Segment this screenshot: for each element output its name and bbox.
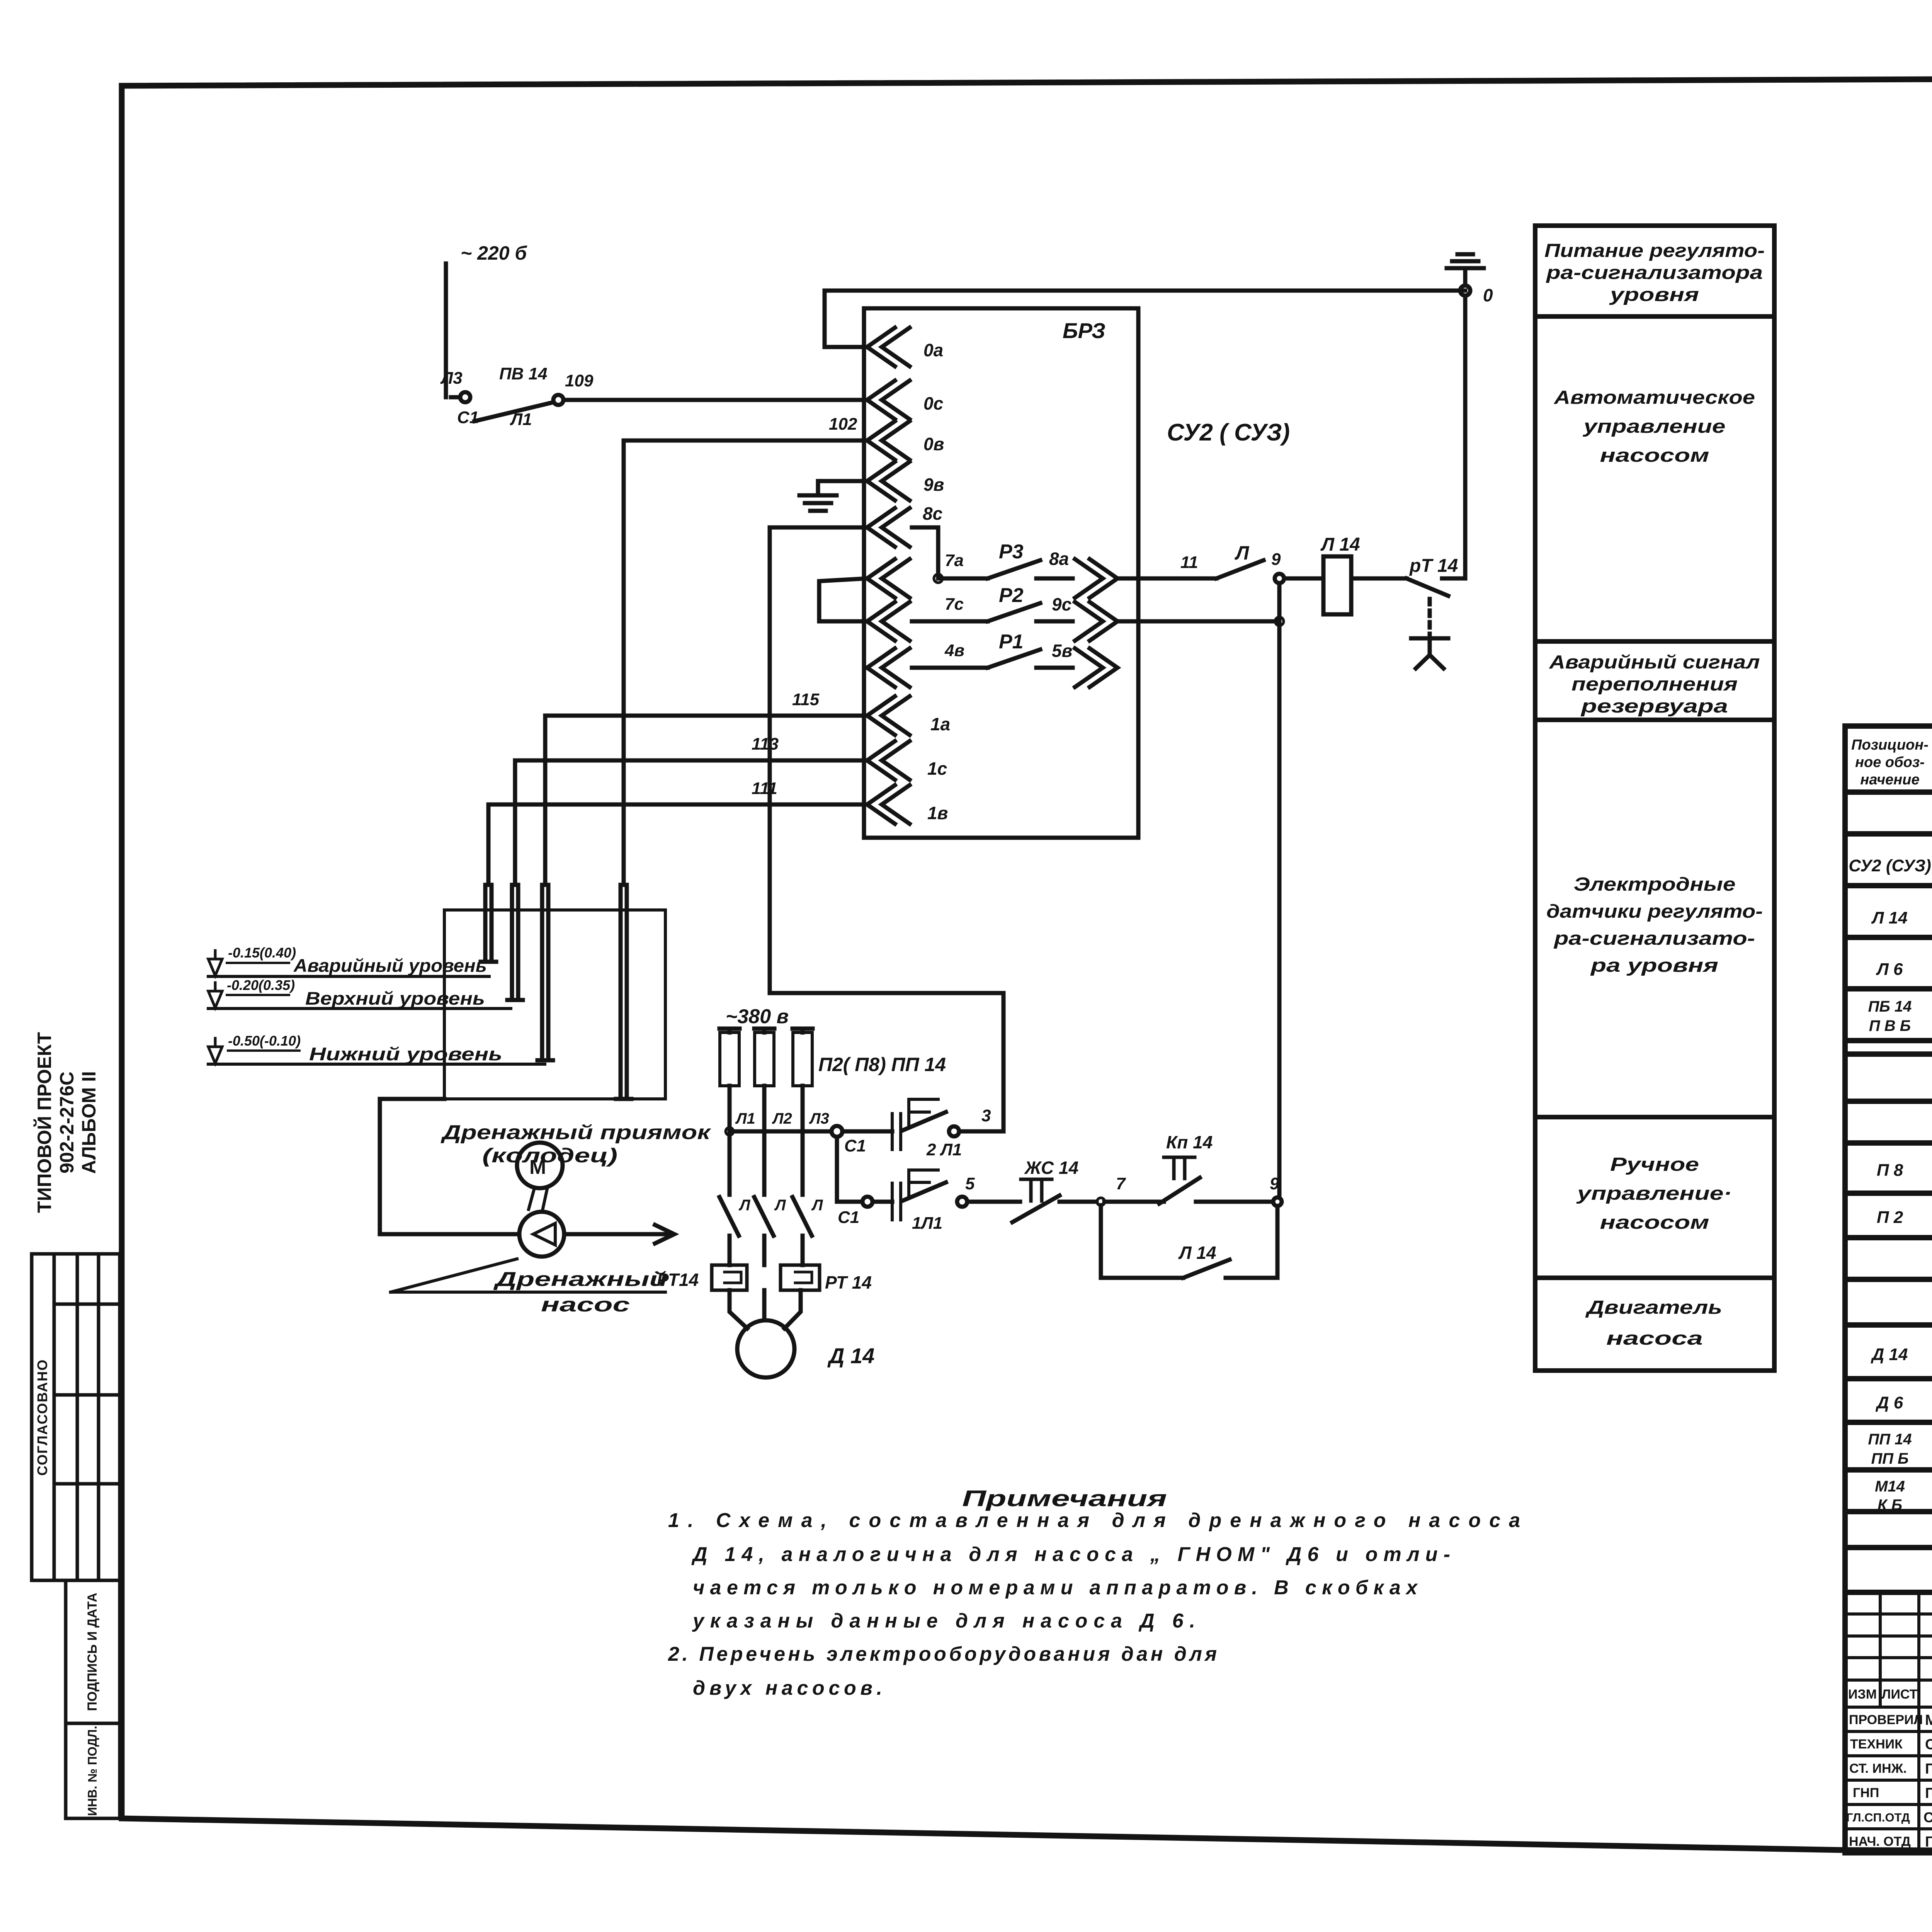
- svg-text:ЖС 14: ЖС 14: [1024, 1158, 1078, 1178]
- svg-text:Л 14: Л 14: [1871, 908, 1907, 927]
- svg-text:рТ 14: рТ 14: [1409, 556, 1458, 576]
- svg-text:МОСЕЕНКО: МОСЕЕНКО: [1925, 1712, 1932, 1728]
- svg-text:Д 14: Д 14: [827, 1344, 874, 1368]
- svg-text:7а: 7а: [945, 551, 964, 570]
- svg-text:СОГЛАСОВАНО: СОГЛАСОВАНО: [34, 1359, 50, 1476]
- svg-text:ИЗМ: ИЗМ: [1848, 1687, 1877, 1702]
- svg-text:Л1: Л1: [510, 410, 532, 429]
- svg-text:СТ. ИНЖ.: СТ. ИНЖ.: [1849, 1761, 1907, 1776]
- svg-text:ПП 14: ПП 14: [1868, 1431, 1912, 1448]
- svg-text:Л: Л: [774, 1197, 786, 1214]
- svg-text:0а: 0а: [923, 340, 943, 360]
- svg-text:Р1: Р1: [999, 631, 1024, 653]
- svg-text:Л2: Л2: [772, 1110, 792, 1127]
- svg-text:СЕНКОВА: СЕНКОВА: [1925, 1736, 1932, 1753]
- svg-text:~380 в: ~380 в: [726, 1005, 789, 1028]
- svg-text:ЛИСТ: ЛИСТ: [1882, 1687, 1918, 1702]
- svg-text:ГОЛЬЦМАН: ГОЛЬЦМАН: [1925, 1834, 1932, 1850]
- svg-text:Л 6: Л 6: [1876, 960, 1903, 979]
- svg-text:начение: начение: [1860, 772, 1919, 788]
- svg-text:ПП Б: ПП Б: [1871, 1450, 1909, 1467]
- svg-text:С1: С1: [838, 1208, 859, 1227]
- svg-text:4в: 4в: [944, 641, 964, 660]
- svg-text:управление: управление: [1582, 416, 1726, 437]
- svg-text:М: М: [529, 1156, 546, 1179]
- svg-text:115: 115: [792, 690, 820, 709]
- svg-text:датчики регулято-: датчики регулято-: [1546, 901, 1763, 922]
- svg-text:ПРОВЕРИЛ: ПРОВЕРИЛ: [1849, 1713, 1923, 1727]
- svg-text:ПБ 14: ПБ 14: [1868, 998, 1912, 1015]
- svg-text:Д 14: Д 14: [1871, 1345, 1908, 1364]
- svg-text:Л1: Л1: [735, 1110, 755, 1127]
- svg-text:РТ 14: РТ 14: [825, 1272, 872, 1293]
- svg-text:Верхний уровень: Верхний уровень: [305, 988, 485, 1009]
- svg-text:Л: Л: [811, 1197, 823, 1214]
- svg-text:3: 3: [981, 1106, 991, 1125]
- svg-text:ПУКОВА: ПУКОВА: [1925, 1761, 1932, 1777]
- svg-text:РТ14: РТ14: [657, 1270, 699, 1290]
- svg-text:Нижний уровень: Нижний уровень: [309, 1044, 502, 1064]
- svg-text:111: 111: [752, 779, 777, 798]
- svg-text:переполнения: переполнения: [1571, 674, 1738, 695]
- svg-text:насоса: насоса: [1606, 1328, 1703, 1349]
- svg-text:П В Б: П В Б: [1869, 1017, 1911, 1034]
- svg-text:ПВ 14: ПВ 14: [499, 364, 548, 383]
- svg-text:ра-сигнализатора: ра-сигнализатора: [1546, 262, 1763, 283]
- svg-text:ПАВЛОВА: ПАВЛОВА: [1925, 1785, 1932, 1801]
- svg-text:109: 109: [565, 371, 594, 390]
- svg-text:управление·: управление·: [1576, 1183, 1732, 1204]
- svg-text:БРЗ: БРЗ: [1063, 318, 1105, 343]
- svg-text:Р3: Р3: [999, 541, 1024, 563]
- svg-text:С1: С1: [457, 408, 479, 427]
- svg-text:Дренажный приямок: Дренажный приямок: [440, 1121, 711, 1144]
- svg-text:Д 6: Д 6: [1875, 1393, 1903, 1412]
- svg-text:Позицион-: Позицион-: [1851, 737, 1929, 753]
- svg-text:АЛЬБОМ II: АЛЬБОМ II: [78, 1071, 100, 1174]
- svg-text:~ 220 б: ~ 220 б: [461, 242, 527, 264]
- svg-text:резервуара: резервуара: [1580, 696, 1728, 717]
- svg-text:1Л1: 1Л1: [912, 1214, 942, 1233]
- svg-text:0с: 0с: [923, 393, 943, 413]
- svg-text:0в: 0в: [923, 434, 944, 454]
- svg-text:9с: 9с: [1052, 594, 1071, 614]
- svg-text:Автоматическое: Автоматическое: [1554, 387, 1755, 408]
- svg-text:1. Схема, составленная для: 1. Схема, составленная для дренажного на…: [668, 1509, 1520, 1532]
- svg-text:Питание регулято-: Питание регулято-: [1544, 240, 1765, 261]
- svg-text:-0.15(0.40): -0.15(0.40): [228, 945, 296, 961]
- svg-text:ГЛ.СП.ОТД: ГЛ.СП.ОТД: [1846, 1811, 1910, 1824]
- svg-text:Л: Л: [738, 1197, 751, 1214]
- svg-text:насосом: насосом: [1600, 445, 1709, 466]
- svg-text:5: 5: [965, 1174, 975, 1193]
- svg-text:2. Перечень электрооборудова: 2. Перечень электрооборудования дан для: [668, 1643, 1217, 1665]
- svg-text:8а: 8а: [1049, 549, 1069, 569]
- svg-text:Дренажный: Дренажный: [493, 1268, 667, 1291]
- svg-text:Л: Л: [1235, 542, 1250, 564]
- svg-text:7: 7: [1116, 1174, 1126, 1193]
- svg-text:насосом: насосом: [1600, 1212, 1709, 1233]
- svg-text:Электродные: Электродные: [1574, 874, 1736, 895]
- svg-text:102: 102: [829, 415, 857, 434]
- svg-text:11: 11: [1180, 553, 1198, 572]
- svg-text:Д 14, аналогична для насоса: Д 14, аналогична для насоса „ ГНОМ" Д6 и…: [691, 1543, 1450, 1566]
- svg-text:М14: М14: [1875, 1478, 1905, 1495]
- svg-text:К Б: К Б: [1878, 1497, 1902, 1514]
- svg-text:Ручное: Ручное: [1610, 1154, 1699, 1175]
- svg-text:(колодец): (колодец): [482, 1145, 617, 1167]
- svg-text:Л3: Л3: [809, 1110, 829, 1127]
- svg-text:С1: С1: [844, 1136, 866, 1155]
- svg-text:902-2-276С: 902-2-276С: [56, 1071, 78, 1173]
- svg-text:Л 14: Л 14: [1178, 1243, 1216, 1263]
- svg-text:5в: 5в: [1052, 641, 1072, 661]
- svg-text:Примечания: Примечания: [962, 1486, 1167, 1511]
- svg-text:9: 9: [1270, 1174, 1279, 1193]
- svg-text:Аварийный уровень: Аварийный уровень: [293, 955, 487, 976]
- svg-text:113: 113: [752, 735, 779, 753]
- svg-text:0: 0: [1483, 285, 1493, 305]
- svg-text:ТЕХНИК: ТЕХНИК: [1850, 1737, 1903, 1752]
- svg-text:1с: 1с: [927, 759, 947, 779]
- svg-text:-0.50(-0.10): -0.50(-0.10): [228, 1033, 301, 1049]
- svg-text:ГНП: ГНП: [1853, 1786, 1879, 1800]
- svg-text:СУ2 ( СУЗ): СУ2 ( СУЗ): [1167, 419, 1290, 446]
- svg-text:ИНВ. № ПОДЛ.: ИНВ. № ПОДЛ.: [85, 1726, 99, 1816]
- svg-text:указаны данные для насос: указаны данные для насоса Д 6.: [692, 1610, 1195, 1632]
- svg-text:Кп 14: Кп 14: [1166, 1132, 1213, 1152]
- svg-text:Р2: Р2: [999, 584, 1024, 607]
- svg-text:Л3: Л3: [440, 369, 463, 388]
- svg-text:Двигатель: Двигатель: [1585, 1297, 1722, 1318]
- svg-text:-0.20(0.35): -0.20(0.35): [227, 977, 295, 993]
- svg-text:ТИПОВОЙ ПРОЕКТ: ТИПОВОЙ ПРОЕКТ: [33, 1032, 55, 1213]
- svg-text:насос: насос: [541, 1294, 630, 1316]
- svg-text:двух насосов.: двух насосов.: [693, 1677, 882, 1699]
- svg-text:2 Л1: 2 Л1: [926, 1140, 962, 1159]
- svg-text:Л 14: Л 14: [1320, 534, 1360, 555]
- svg-text:уровня: уровня: [1609, 284, 1699, 305]
- svg-text:Аварийный сигнал: Аварийный сигнал: [1549, 652, 1760, 673]
- svg-text:П2( П8) ПП 14: П2( П8) ПП 14: [818, 1054, 946, 1075]
- svg-text:1в: 1в: [927, 803, 948, 823]
- svg-text:НАЧ. ОТД: НАЧ. ОТД: [1849, 1834, 1911, 1849]
- svg-text:9: 9: [1271, 550, 1281, 569]
- svg-text:ра-сигнализато-: ра-сигнализато-: [1553, 928, 1755, 949]
- svg-text:8с: 8с: [923, 503, 942, 524]
- svg-text:СУ2 (СУЗ): СУ2 (СУЗ): [1849, 856, 1931, 875]
- svg-text:ра уровня: ра уровня: [1590, 955, 1718, 976]
- svg-text:П 2: П 2: [1877, 1208, 1903, 1227]
- svg-text:1а: 1а: [930, 714, 950, 734]
- svg-text:ное обоз-: ное обоз-: [1855, 754, 1925, 770]
- svg-text:П 8: П 8: [1877, 1161, 1903, 1180]
- svg-text:ПОДПИСЬ И ДАТА: ПОДПИСЬ И ДАТА: [85, 1593, 100, 1711]
- svg-text:9в: 9в: [923, 474, 944, 495]
- svg-text:7с: 7с: [945, 595, 964, 614]
- svg-text:чается только номерами а: чается только номерами аппаратов. В скоб…: [693, 1577, 1418, 1599]
- svg-text:СТЕПАНЕНКО: СТЕПАНЕНКО: [1923, 1810, 1932, 1825]
